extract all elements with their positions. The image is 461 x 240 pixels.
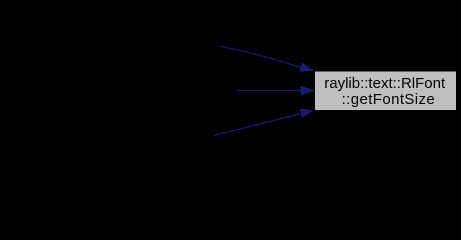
node raylib::text::RlFont::getFontSize — [315, 71, 457, 111]
edge caller1 -> getFontSize — [219, 46, 314, 72]
svg-text:::getFontSize: ::getFontSize — [342, 91, 436, 108]
svg-text:raylib::text::RlFont: raylib::text::RlFont — [324, 75, 446, 92]
edge caller2 -> getFontSize — [236, 85, 315, 95]
edge caller3 -> getFontSize — [214, 109, 314, 136]
